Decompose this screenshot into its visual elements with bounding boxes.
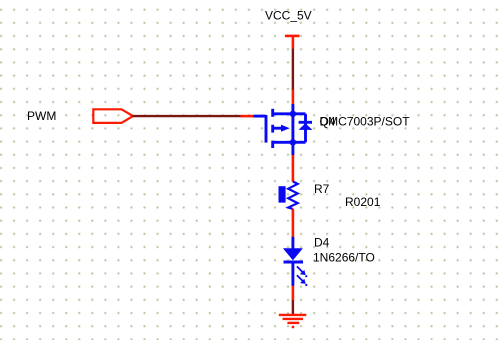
transistor Q4 channel arrow [281,125,290,132]
svg-text:R0201: R0201 [345,195,381,209]
wire VCC to Q4 source [292,49,294,91]
svg-text:VCC_5V: VCC_5V [265,8,312,22]
transistor Q4 P-MOSFET body [254,104,293,155]
resistor R7 body rectangle [279,186,286,202]
pin Q4 source (pin 2) [292,90,295,105]
svg-text:DMC7003P/SOT: DMC7003P/SOT [320,115,411,129]
svg-text:R7: R7 [314,182,330,196]
svg-text:PWM: PWM [27,109,56,123]
LED light arrow 2 [297,275,308,286]
pin Q4 gate (pin 1) [240,115,254,118]
junction dot Q4 drain-diode top [290,111,296,117]
diode D4 LED [284,237,304,286]
ground symbol [279,315,307,327]
transistor Q4 body diode [293,114,312,143]
power symbol VCC_5V [285,36,300,49]
pin Q4 drain to R7 [292,155,295,182]
LED light arrow 1 [297,266,308,277]
svg-text:1N6266/TO: 1N6266/TO [313,250,375,264]
diode D4 triangle [283,248,303,260]
junction dot Q4 source-diode bottom [290,139,296,145]
wire R7 to D4 [292,209,295,237]
pin D4 cathode [292,286,295,301]
port PWM [93,109,133,123]
wire D4 to ground [292,300,294,315]
svg-text:D4: D4 [314,235,330,249]
resistor R7 [288,182,298,210]
wire PWM to gate [133,115,241,117]
